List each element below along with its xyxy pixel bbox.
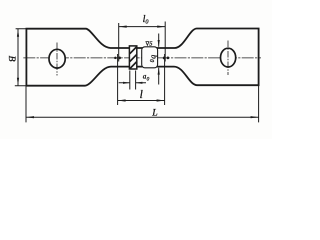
svg-text:B: B [6,56,17,62]
dimension L: extension lines [26,85,259,122]
hatched cross-section rectangle [129,46,136,69]
left hole [49,49,65,68]
dimension b0: arrow lines with outside arrows [158,34,160,85]
gauge point dots on centerline [114,57,117,60]
dimension a0: extension lines [130,71,136,90]
svg-text:L: L [151,107,157,118]
rounded gauge-section box [142,47,158,68]
dimension L: arrows [26,116,34,118]
dimension l0: extension lines [119,22,166,62]
dimension B: arrows [17,29,19,37]
dimension l0: dimension line [119,26,166,28]
dimension l: extension lines [118,54,165,105]
dimension l: arrows [118,99,126,101]
svg-text:b: b [149,55,158,59]
svg-text:l: l [140,89,143,101]
dimension l: dimension line [118,100,165,102]
main horizontal centerline [23,57,261,59]
svg-text:0: 0 [147,76,150,82]
right hole vertical centerline [227,41,229,76]
right hole [221,48,236,67]
dimension L: dimension line [26,116,259,118]
dimension l0: arrows [119,26,127,28]
svg-text:0: 0 [148,59,154,62]
surface finish triangle of ∇5 [146,42,149,46]
dimension a0: dimension line with outside arrows [119,82,146,84]
label b0 (rotated) [148,55,159,62]
dimension B: extension lines [15,29,27,86]
specimen outline [26,29,258,86]
svg-text:5: 5 [149,40,152,47]
hatch strokes [130,47,137,69]
dimension B: dimension line [17,29,19,86]
svg-text:0: 0 [145,18,149,25]
left hole vertical centerline [56,43,58,76]
